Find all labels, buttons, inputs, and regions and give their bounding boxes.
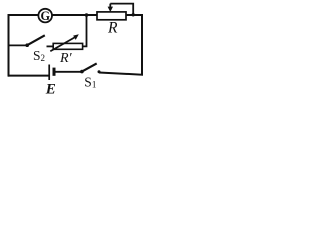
- switch S1 contact dot left: [80, 70, 84, 74]
- svg-text:S1: S1: [84, 75, 96, 90]
- svg-text:E: E: [45, 82, 56, 98]
- wire S2 to R': [47, 45, 54, 47]
- switch S1 contact dot right: [98, 70, 101, 73]
- resistor R box: [97, 12, 126, 20]
- node slider-loop junction dot: [132, 13, 135, 16]
- wire stub to S2: [8, 44, 26, 46]
- wire R' to branch corner: [83, 15, 87, 46]
- rheostat R' box: [53, 43, 82, 49]
- svg-text:S2: S2: [33, 48, 45, 63]
- wire bottom-left segment: [8, 75, 49, 77]
- wire slider loop: [110, 4, 133, 14]
- rheostat R' diagonal arrow: [50, 34, 79, 51]
- wire top-right and right side: [99, 15, 142, 75]
- battery E short plate: [53, 68, 56, 76]
- wire top-left segment: [8, 14, 40, 16]
- node junction dot (top wire to middle branch): [85, 13, 89, 17]
- slider arrow into R: [108, 4, 113, 12]
- svg-text:G: G: [40, 9, 50, 23]
- switch S1 lever: [82, 63, 97, 71]
- wire left side: [8, 14, 10, 77]
- wire top-middle segment: [52, 14, 98, 16]
- svg-text:R: R: [107, 19, 118, 36]
- battery E long plate: [48, 65, 50, 81]
- wire battery to S1: [56, 71, 81, 73]
- svg-text:R′: R′: [59, 51, 73, 66]
- galvanometer G: [38, 9, 52, 23]
- switch S2 contact dot: [25, 43, 29, 47]
- switch S2 lever: [27, 35, 45, 45]
